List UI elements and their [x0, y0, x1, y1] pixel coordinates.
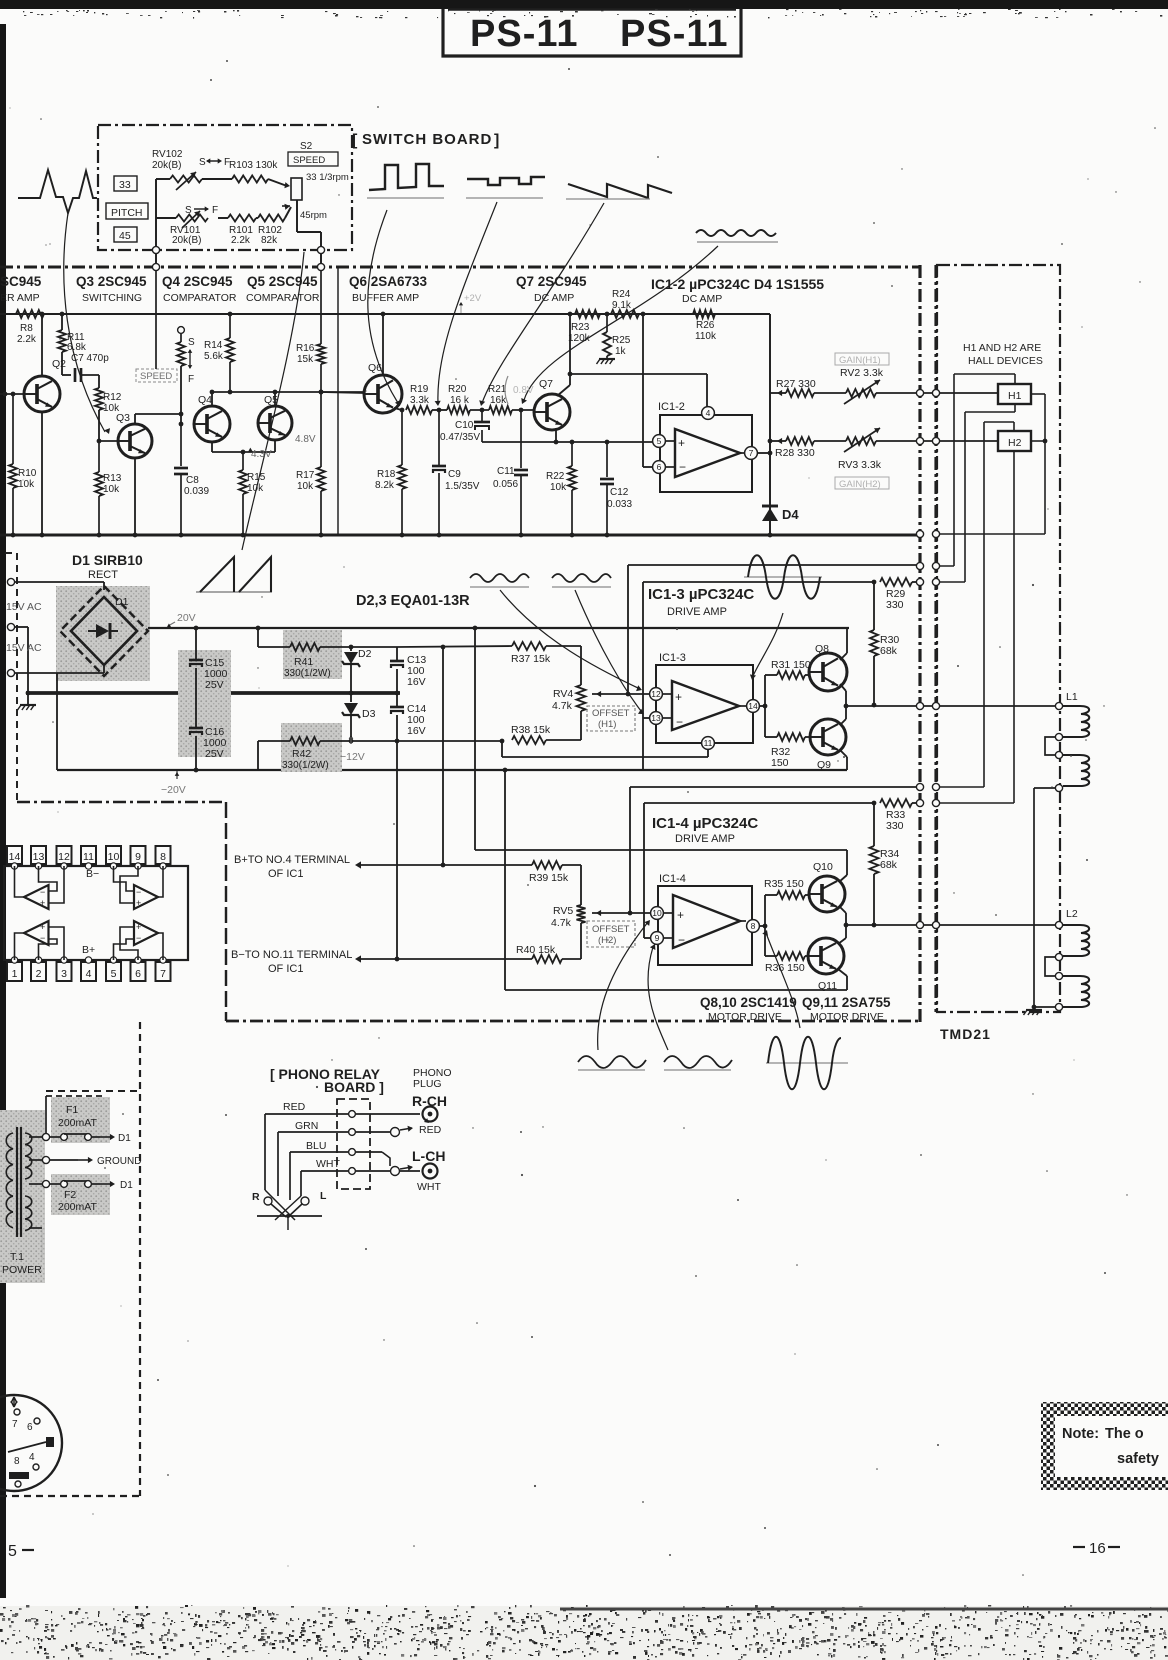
pin 9 of IC1-4: [651, 932, 664, 945]
junction circles boundary y441: [916, 437, 939, 444]
svg-text:(H1): (H1): [598, 719, 616, 730]
leader switch to sawtooth wave: [242, 252, 304, 550]
resistor R21: [488, 384, 512, 414]
wire +20V drop to drive2: [474, 628, 476, 850]
svg-text:R25: R25: [612, 335, 631, 346]
page number right: [1073, 1540, 1120, 1557]
trimmer RV3: [838, 428, 882, 471]
wire pin8 out: [759, 924, 767, 929]
heavy 0V rail: [26, 691, 400, 696]
svg-text:−: −: [40, 887, 45, 897]
gray patch F2: [51, 1174, 110, 1215]
svg-text:110k: 110k: [695, 331, 717, 342]
svg-text:R16: R16: [296, 343, 315, 354]
waveform ripple bottom 1: [578, 1056, 646, 1070]
svg-text:Q6: Q6: [368, 362, 382, 374]
wire transformer bottom loop: [29, 1228, 42, 1260]
svg-text:DC AMP: DC AMP: [682, 293, 722, 305]
svg-text:2.2k: 2.2k: [17, 334, 37, 345]
svg-text:COMPARATOR: COMPARATOR: [163, 292, 237, 304]
coil L1 winding upper: [1063, 706, 1089, 737]
svg-text:16: 16: [1089, 1540, 1106, 1557]
svg-text:D2: D2: [358, 648, 372, 660]
header Q5 2SC945 COMPARATOR: [246, 274, 320, 304]
waveform ripple bottom 2: [664, 1056, 732, 1070]
resistor R35: [764, 878, 810, 899]
op-amp IC1-4: [658, 886, 752, 965]
zener D2: [342, 647, 372, 693]
transformer T1 core: [17, 1127, 21, 1237]
svg-text:RV5: RV5: [553, 905, 573, 917]
svg-text:3.3k: 3.3k: [410, 395, 430, 406]
phono jack R-CH: [423, 1107, 438, 1124]
svg-text:B−TO NO.11 TERMINAL: B−TO NO.11 TERMINAL: [231, 949, 352, 961]
svg-text:330: 330: [886, 599, 904, 611]
svg-text:0.8V: 0.8V: [513, 385, 534, 396]
resistor R26: [643, 310, 770, 342]
DIN pin 4: [29, 1452, 39, 1470]
svg-text:10: 10: [652, 908, 662, 918]
svg-text:H1 AND H2 ARE: H1 AND H2 ARE: [963, 342, 1041, 354]
svg-text:−20V: −20V: [161, 784, 186, 796]
svg-text:15k: 15k: [297, 354, 314, 365]
resistor R33: [880, 799, 920, 832]
svg-text:]: ]: [494, 132, 499, 149]
wire Q2 base: [0, 392, 24, 397]
resistor R39: [529, 861, 581, 884]
svg-text:PLUG: PLUG: [413, 1078, 442, 1090]
bridge rectifier D1 outer: [60, 586, 148, 676]
junction circles boundary y534: [916, 530, 939, 537]
svg-text:−: −: [678, 933, 685, 947]
resistor R38: [511, 724, 581, 744]
wire pin4 loop: [570, 374, 707, 407]
wire switch right column: [297, 200, 321, 250]
svg-text:R40 15k: R40 15k: [516, 944, 556, 956]
svg-text:+: +: [136, 922, 141, 932]
supply rail +20V: [148, 626, 849, 631]
svg-text:C7 470p: C7 470p: [71, 353, 109, 364]
svg-text:D2,3 EQA01-13R: D2,3 EQA01-13R: [356, 593, 470, 609]
capacitor C9: [432, 410, 480, 537]
svg-text:RV3 3.3k: RV3 3.3k: [838, 459, 882, 471]
wire H2 right stub: [1031, 440, 1045, 442]
svg-text:R13: R13: [103, 473, 122, 484]
svg-text:8: 8: [751, 921, 756, 931]
label -12V: [340, 734, 365, 763]
hall device H1: [998, 384, 1031, 404]
svg-text:Q9,11 2SA755: Q9,11 2SA755: [802, 995, 891, 1010]
transformer T1 secondary lower: [25, 1196, 32, 1231]
header Q4 2SC945 COMPARATOR: [162, 274, 237, 304]
leader pulse to Q6: [368, 210, 401, 406]
waveform sine bottom: [766, 1037, 848, 1090]
svg-text:13: 13: [33, 851, 45, 863]
wire Q3 base: [97, 439, 118, 444]
node drive1 output: [844, 704, 849, 709]
leader ripple1 to pin12: [500, 590, 642, 691]
label GRN wire: [295, 1120, 318, 1132]
wire H1-top row: [628, 564, 920, 566]
svg-text:C11: C11: [497, 466, 515, 477]
coil L1 terminal 4: [1055, 784, 1062, 791]
label 4.8V: [295, 434, 316, 445]
svg-text:F2: F2: [64, 1189, 76, 1201]
header Q7 2SC945 DC AMP: [516, 274, 587, 304]
label SWITCH BOARD: [352, 131, 499, 149]
svg-text:6: 6: [657, 462, 662, 472]
svg-text:S2: S2: [300, 141, 313, 152]
svg-text:Q10: Q10: [813, 861, 833, 873]
wire Q11 collector: [838, 969, 847, 990]
resistor R36: [765, 952, 810, 974]
wire Q9 collector: [840, 750, 847, 770]
coil L2 terminal 4: [1055, 1003, 1062, 1010]
junction circles boundary y925: [916, 921, 939, 928]
wire Q4 collector: [210, 390, 215, 406]
svg-text:RED: RED: [419, 1124, 442, 1136]
node row pin5: [482, 440, 653, 445]
coil L2 terminal 2: [1055, 953, 1062, 960]
resistor R14: [204, 312, 234, 395]
wire pot to Q4 base: [179, 366, 184, 426]
wire to main box left: [155, 254, 157, 264]
label 15V AC lower: [6, 642, 42, 654]
svg-text:R19: R19: [410, 384, 429, 395]
capacitor C8: [174, 424, 209, 535]
svg-text:1: 1: [12, 968, 18, 980]
svg-text:+: +: [675, 690, 682, 704]
left border bar: [0, 24, 6, 1598]
svg-text:[: [: [352, 132, 358, 149]
pin 10 of IC1-4: [651, 907, 664, 920]
resistor R41: [284, 643, 331, 679]
wire Q5 collector: [273, 390, 278, 406]
wire +12V line: [258, 628, 397, 649]
cartridge L contact: [288, 1190, 327, 1217]
label BLU wire: [306, 1140, 326, 1152]
svg-text:12: 12: [651, 689, 661, 699]
svg-text:33 1/3rpm: 33 1/3rpm: [306, 172, 349, 183]
svg-text:Q8: Q8: [815, 643, 829, 655]
op-amp unit 4 (pins 5,6,7): [114, 921, 164, 960]
svg-text:SWITCH BOARD: SWITCH BOARD: [362, 131, 492, 148]
wire pin9 stub: [644, 937, 650, 939]
svg-text:4.3V: 4.3V: [251, 449, 272, 460]
drive2 box left edge: [643, 803, 645, 938]
op-amp IC1-3 label: [659, 652, 686, 664]
junction circles boundary y787: [916, 783, 939, 790]
svg-text:L1: L1: [1066, 691, 1078, 703]
svg-text:IC1-2 µPC324C D4 1S1555: IC1-2 µPC324C D4 1S1555: [651, 276, 824, 292]
hall device H2: [998, 431, 1031, 451]
svg-text:4.8V: 4.8V: [295, 434, 316, 445]
wire GRN: [278, 1132, 348, 1196]
svg-text:IC1-3: IC1-3: [659, 652, 686, 664]
top box section divider: [337, 267, 339, 535]
pot S terminal: [178, 327, 185, 342]
label IC1-3 uPC324C: [648, 586, 754, 618]
resistor R12: [95, 375, 122, 441]
coil L1 terminal 3: [1055, 751, 1062, 758]
transformer dashed box: [0, 1022, 140, 1496]
header Q2 2SC945 BUFFER AMP: [0, 274, 42, 304]
resistor R29: [880, 578, 920, 611]
svg-text:120k: 120k: [568, 333, 591, 344]
wire Q10 collector: [839, 850, 847, 882]
phono jack L-CH: [391, 1164, 438, 1179]
label Q8,10 2SC1419: [700, 995, 797, 1023]
capacitor C7: [62, 353, 109, 382]
AC terminal bottom: [7, 669, 14, 676]
svg-text:F: F: [212, 205, 218, 216]
svg-text:TMD21: TMD21: [940, 1026, 991, 1042]
svg-text:R8: R8: [20, 323, 33, 334]
op-amp IC1-2 label: [658, 401, 685, 413]
svg-text:L-CH: L-CH: [412, 1148, 445, 1164]
node R24 left: [605, 312, 610, 317]
label F2 200mAT: [58, 1189, 97, 1213]
label GAIN H2 ghost: [835, 477, 889, 490]
bottom rail -20V: [57, 768, 847, 773]
svg-text:15V AC: 15V AC: [6, 601, 42, 613]
svg-text:R36 150: R36 150: [765, 962, 805, 974]
op-amp IC1-3: [656, 665, 753, 743]
transistor Q10: [809, 861, 845, 912]
capacitor C16: [189, 693, 227, 770]
svg-text:R15: R15: [247, 472, 266, 483]
wire AC top to bridge: [15, 582, 104, 590]
svg-text:R21: R21: [488, 384, 507, 395]
svg-text:20V: 20V: [177, 612, 196, 624]
pin 12 of IC1-3: [650, 688, 663, 701]
fuse F1: [50, 1134, 100, 1141]
label OFFSET H1: [587, 706, 635, 731]
wire secondary tap 2: [29, 1156, 50, 1163]
svg-text:6: 6: [27, 1422, 33, 1433]
svg-text:45: 45: [119, 230, 131, 242]
resistor R30: [870, 582, 899, 707]
wire pin14 out: [759, 704, 767, 709]
resistor R18: [375, 410, 406, 537]
waveform spike icon: [18, 170, 97, 213]
svg-text:9: 9: [135, 851, 141, 863]
wire rail drop x570: [568, 312, 573, 377]
wire Q8 collector: [840, 628, 847, 660]
AC terminal top: [7, 578, 14, 585]
svg-text:20k(B): 20k(B): [152, 160, 181, 171]
waveform pulse icon: [367, 164, 444, 198]
drive1 box left edge: [642, 582, 644, 770]
label 4.3V: [248, 448, 272, 460]
svg-text:4.7k: 4.7k: [552, 700, 573, 712]
svg-text:T.1: T.1: [10, 1251, 24, 1263]
wire WHT: [301, 1171, 348, 1196]
svg-text:1k: 1k: [615, 346, 627, 357]
resistor R16: [296, 343, 325, 392]
svg-text:R37 15k: R37 15k: [511, 653, 551, 665]
ground AC: [18, 693, 37, 710]
resistor R20: [447, 384, 470, 414]
svg-text:Q5 2SC945: Q5 2SC945: [247, 274, 318, 289]
svg-text:S: S: [199, 157, 206, 168]
resistor R17: [296, 390, 325, 535]
arrow GROUND: [78, 1156, 141, 1167]
wire -20V column: [56, 673, 58, 770]
wire H2 top loop: [937, 422, 1014, 787]
svg-text:OFFSET: OFFSET: [592, 708, 630, 719]
transformer T1 primary winding: [6, 1133, 13, 1228]
wire R27-RV2: [814, 392, 846, 394]
transistor Q11: [808, 938, 844, 992]
wire R27 line: [770, 390, 786, 396]
transistor Q6: [364, 362, 402, 413]
zener D3: [342, 693, 376, 741]
svg-text:DRIVE AMP: DRIVE AMP: [667, 606, 727, 618]
node C10 top: [480, 408, 485, 413]
wire secondary tap 1: [29, 1133, 50, 1140]
label 0.8V ghost: [505, 376, 534, 404]
wire Q3 emitter: [133, 458, 138, 537]
wire Q8 emitter: [840, 684, 846, 706]
svg-text:H2: H2: [1008, 437, 1022, 449]
wire Q7 collector: [557, 374, 570, 396]
wire x628 to pin12 row: [626, 565, 631, 696]
relay contact 4: [349, 1168, 356, 1175]
label +2V ghost: [459, 293, 482, 313]
node C9 top: [437, 408, 442, 413]
svg-text:MOTOR DRIVE: MOTOR DRIVE: [708, 1011, 782, 1023]
svg-text:Q9: Q9: [817, 759, 831, 771]
svg-text:SC945: SC945: [0, 274, 42, 289]
coil L2 winding lower: [1063, 976, 1089, 1007]
svg-text:5: 5: [657, 436, 662, 446]
resistor R13: [95, 441, 122, 535]
wire motor node L2: [846, 924, 1056, 926]
svg-text:PITCH: PITCH: [111, 207, 143, 219]
transistor Q8: [809, 643, 847, 691]
wire RV2 to H1: [876, 392, 998, 394]
capacitor C15: [189, 628, 228, 693]
svg-text:R20: R20: [448, 384, 467, 395]
drive2 supply rail bottom: [505, 989, 847, 991]
svg-text:7: 7: [749, 448, 754, 458]
label IC1-4 uPC324C: [652, 815, 758, 845]
svg-text:Q3 2SC945: Q3 2SC945: [76, 274, 147, 289]
svg-text:−12V: −12V: [340, 751, 365, 763]
label WHT under jack: [417, 1181, 441, 1193]
wire switch lower row: [156, 207, 291, 218]
svg-text:14: 14: [9, 851, 21, 863]
label SPEED ghost box: [136, 369, 177, 382]
wire RED: [265, 1114, 348, 1190]
svg-text:SPEED: SPEED: [140, 371, 172, 382]
terminal circle switch left: [152, 246, 159, 253]
capacitor C13: [390, 647, 426, 693]
coil L2 label: [1066, 908, 1078, 920]
leader sine to pin14: [750, 613, 783, 680]
resistor R19: [406, 384, 432, 414]
svg-text:OF IC1: OF IC1: [268, 868, 303, 880]
transformer T1 secondary upper: [25, 1133, 32, 1179]
svg-text:Q5: Q5: [264, 394, 278, 406]
transistor Q9: [810, 719, 846, 771]
svg-text:D1: D1: [118, 1133, 131, 1144]
resistor R28: [775, 437, 815, 459]
svg-text:16 k: 16 k: [450, 395, 470, 406]
svg-text:C9: C9: [448, 469, 461, 480]
DIN pin 8: [14, 1456, 20, 1467]
top scan noise: [23, 9, 1162, 19]
arrow to D1 upper: [100, 1133, 131, 1144]
switch board dashed box: [98, 125, 352, 250]
transistor Q4: [194, 394, 230, 442]
wire R28 line: [770, 438, 786, 444]
svg-text:−: −: [136, 887, 141, 897]
svg-text:COMPARATOR: COMPARATOR: [246, 292, 320, 304]
svg-text:GAIN(H1): GAIN(H1): [839, 355, 881, 366]
svg-text:4.7k: 4.7k: [551, 917, 572, 929]
svg-text:RV102: RV102: [152, 149, 183, 160]
waveform ripple mid 2: [552, 574, 611, 587]
svg-text:Q7 2SC945: Q7 2SC945: [516, 274, 587, 289]
svg-text:WHT: WHT: [316, 1158, 340, 1170]
svg-text:R22: R22: [546, 471, 565, 482]
svg-text:R31 150: R31 150: [771, 659, 811, 671]
waveform sawtooth large: [196, 557, 272, 592]
svg-text:C8: C8: [186, 475, 199, 486]
coil L2 terminal 1: [1055, 921, 1062, 928]
label -20V: [161, 771, 186, 796]
wire to main box right: [320, 254, 322, 264]
DIN connector circle: [0, 1395, 62, 1491]
waveform ripple mid 1: [470, 574, 529, 587]
wire Q2 collector: [40, 312, 45, 376]
svg-text:The o: The o: [1105, 1426, 1144, 1442]
svg-text:PS-11: PS-11: [470, 13, 579, 55]
op-amp unit 3 (pins 1,2,3): [15, 921, 65, 960]
svg-text:B+TO NO.4 TERMINAL: B+TO NO.4 TERMINAL: [234, 854, 350, 866]
svg-text:10k: 10k: [247, 483, 264, 494]
gray patch bridge: [56, 586, 150, 681]
svg-text:8.2k: 8.2k: [375, 480, 395, 491]
svg-text:R42: R42: [292, 748, 311, 760]
resistor R34: [870, 803, 900, 927]
wire Q7 emitter: [554, 428, 559, 444]
wire R16 column top: [317, 263, 324, 344]
svg-text:0.056: 0.056: [493, 479, 518, 490]
svg-text:10k: 10k: [550, 482, 567, 493]
svg-text:+: +: [40, 898, 45, 908]
label 15V AC upper: [6, 601, 42, 613]
cartridge R contact: [252, 1191, 286, 1217]
svg-text:BOARD ]: BOARD ]: [324, 1079, 384, 1095]
bridge diode symbol: [88, 623, 118, 639]
svg-text:25V: 25V: [205, 748, 224, 760]
node Q6 emitter: [400, 408, 405, 413]
label hall devices: [963, 342, 1043, 367]
svg-text:L: L: [320, 1190, 327, 1202]
node drive2 output: [844, 923, 849, 928]
coil L1 terminal 2: [1055, 733, 1062, 740]
svg-text:10k: 10k: [297, 481, 314, 492]
relay contact 3: [349, 1149, 356, 1156]
svg-text:Q2: Q2: [52, 358, 66, 370]
label WHT wire: [316, 1158, 340, 1170]
svg-text:150: 150: [771, 757, 789, 769]
svg-text:ER AMP: ER AMP: [0, 292, 40, 304]
wire R37 left: [397, 646, 512, 647]
